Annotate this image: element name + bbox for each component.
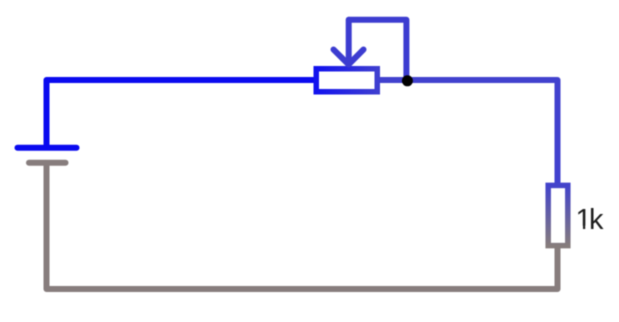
junction node — [402, 75, 413, 86]
wire: wiper loop to output node — [349, 20, 407, 80]
svg-text:k: k — [589, 204, 604, 236]
potentiometer P1 body — [316, 69, 377, 92]
resistor R1 body — [548, 185, 568, 245]
battery B1 positive plate — [18, 145, 77, 151]
label: 1k value of resistor R1 — [576, 204, 605, 236]
wire: potentiometer right terminal across and down to resistor top — [377, 80, 558, 187]
potentiometer P1 wiper arrow — [334, 20, 364, 65]
wire: battery positive up and across to potentiometer left terminal — [47, 80, 317, 146]
battery B1 negative plate — [29, 160, 66, 166]
wire: battery negative down, bottom return, up to resistor bottom — [47, 163, 558, 289]
